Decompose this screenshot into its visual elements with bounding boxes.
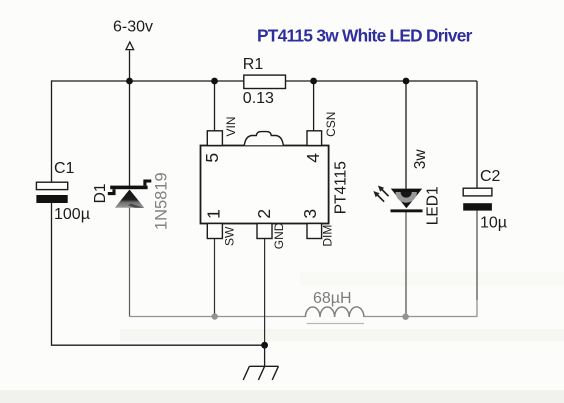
label D1 (92, 183, 109, 203)
svg-text:10µ: 10µ (480, 215, 507, 232)
pin label SW (222, 226, 236, 246)
IC package bump (244, 132, 283, 146)
svg-text:5: 5 (202, 153, 222, 163)
svg-text:1N5819: 1N5819 (152, 172, 170, 230)
diode D1 (108, 181, 152, 208)
pin label GND (272, 222, 286, 249)
label 3w (412, 149, 429, 170)
svg-text:DIM: DIM (321, 225, 335, 247)
junction LED/rail (403, 78, 410, 85)
pin number 2 (254, 209, 274, 219)
wire right rail lower (476, 211, 478, 317)
pin 3 box DIM (307, 224, 322, 239)
junction VIN/rail (211, 78, 218, 85)
wire left rail lower (51, 203, 53, 346)
wire GND pin down (264, 238, 266, 345)
svg-text:2: 2 (254, 209, 274, 219)
LED LED1 (391, 189, 423, 213)
svg-text:C1: C1 (54, 160, 75, 177)
pin label CSN (324, 112, 338, 137)
svg-text:CSN: CSN (324, 112, 338, 137)
svg-text:D1: D1 (92, 183, 109, 203)
value 100u (54, 206, 90, 223)
svg-text:R1: R1 (243, 56, 264, 73)
supply input arrow (126, 42, 134, 50)
title (257, 26, 473, 46)
svg-text:LED1: LED1 (425, 186, 442, 225)
wire SW pin down (214, 238, 216, 317)
value 68uH (313, 290, 352, 307)
value 0.13 (243, 90, 274, 107)
pin number 1 (204, 209, 224, 219)
wire top rail (52, 80, 478, 82)
wire diode upper (129, 81, 131, 186)
label 6-30v (113, 19, 153, 36)
svg-text:C2: C2 (480, 168, 501, 185)
svg-text:PT4115 3w White LED Driver: PT4115 3w White LED Driver (257, 26, 473, 46)
pin label VIN (224, 116, 238, 136)
resistor R1 (244, 75, 286, 88)
svg-text:VIN: VIN (224, 116, 238, 136)
pin number 5 (202, 153, 222, 163)
wire left rail upper (51, 80, 53, 182)
wire LED lower (405, 212, 407, 317)
pin number 3 (300, 209, 320, 219)
junction GND/bottom rail (261, 342, 268, 349)
wire right rail upper (476, 81, 478, 189)
label LED1 (425, 186, 442, 225)
wire CSN pin to rail (313, 81, 315, 131)
wire SW node horizontal (130, 316, 306, 318)
LED light arrows (373, 186, 388, 202)
svg-text:PT4115: PT4115 (332, 161, 349, 214)
wire supply input (129, 50, 131, 81)
wire inductor to LED node (364, 316, 478, 318)
IC value PT4115 (332, 161, 349, 214)
svg-text:100µ: 100µ (54, 206, 90, 223)
junction LED/inductor node (402, 314, 408, 320)
label C2 (480, 168, 501, 185)
wire LED upper (405, 81, 407, 189)
inductor 68uH (305, 307, 364, 324)
svg-text:6-30v: 6-30v (113, 19, 153, 36)
pin label DIM (321, 225, 335, 247)
pin number 4 (303, 153, 323, 163)
label R1 (243, 56, 264, 73)
pin 4 box CSN (307, 131, 322, 146)
svg-text:4: 4 (303, 153, 323, 163)
svg-text:3w: 3w (412, 149, 429, 170)
svg-text:3: 3 (300, 209, 320, 219)
svg-text:0.13: 0.13 (243, 90, 274, 107)
label C1 (54, 160, 75, 177)
value 1N5819 (152, 172, 170, 230)
wire VIN pin to rail (214, 81, 216, 131)
svg-text:1: 1 (204, 209, 224, 219)
svg-text:SW: SW (222, 226, 236, 246)
pin 1 box SW (207, 224, 222, 239)
svg-text:68µH: 68µH (313, 290, 352, 307)
wire diode lower (129, 208, 131, 317)
capacitor C1 (36, 182, 67, 203)
IC U1 body PT4115 (201, 146, 329, 224)
wire bottom ground rail (51, 344, 265, 346)
svg-text:GND: GND (272, 222, 286, 249)
junction CSN/rail (310, 78, 317, 85)
ground stub wire (264, 345, 266, 366)
pin 5 box VIN (207, 131, 222, 146)
ground symbol (243, 366, 278, 380)
junction supply/rail (126, 78, 133, 85)
junction SW node (212, 313, 218, 319)
pin 2 box GND (257, 224, 272, 239)
value 10u (480, 215, 507, 232)
capacitor C2 (463, 188, 492, 210)
